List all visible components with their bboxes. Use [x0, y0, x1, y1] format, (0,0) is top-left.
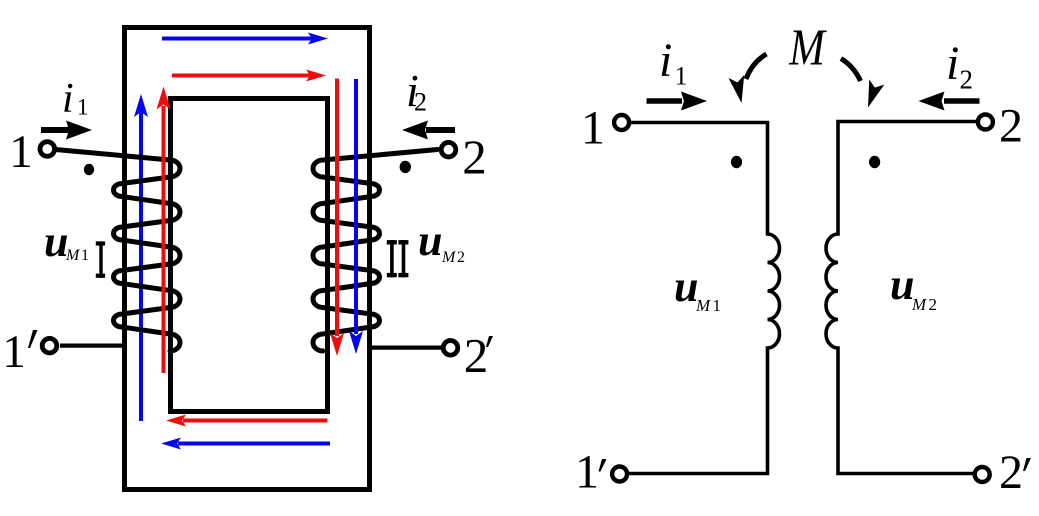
current arrow i2 schematic: [919, 92, 980, 111]
flux arrow red right leg downwards: [330, 79, 344, 357]
svg-text:2: 2: [999, 446, 1023, 499]
svg-text:1: 1: [2, 326, 26, 378]
svg-text:2: 2: [929, 295, 938, 314]
terminal 2: [441, 142, 456, 157]
current arrow i1 schematic: [647, 92, 708, 111]
svg-text:2: 2: [464, 328, 489, 383]
svg-text:1: 1: [81, 247, 89, 264]
svg-text:M: M: [65, 247, 81, 264]
winding numeral I: [96, 241, 105, 277]
winding I coil around left leg: [56, 150, 181, 352]
terminal 2prime: [443, 341, 458, 356]
terminal 1prime: [42, 338, 57, 353]
polarity dot winding I: [84, 164, 94, 175]
transformer core outer outline: [125, 28, 370, 490]
coupled inductor L2 with leads: [826, 122, 977, 474]
svg-text:1: 1: [575, 446, 599, 499]
svg-text:2: 2: [414, 88, 427, 117]
svg-text:u: u: [44, 217, 68, 266]
svg-text:M: M: [695, 296, 711, 315]
polarity dot winding II: [400, 161, 411, 173]
current arrow i2: [402, 121, 455, 140]
svg-text:i: i: [659, 34, 672, 87]
wire 2prime to core: [370, 346, 442, 350]
svg-text:1: 1: [9, 126, 33, 178]
svg-text:i: i: [62, 76, 74, 122]
winding numeral II: [387, 240, 409, 277]
svg-text:u: u: [674, 262, 698, 311]
svg-text:1: 1: [77, 95, 89, 120]
curved arrow right to L2: [841, 59, 884, 111]
current arrow i1: [41, 121, 92, 140]
wire 1prime to core: [60, 344, 124, 348]
svg-text:1: 1: [581, 102, 605, 155]
curved arrow left to L1: [728, 54, 766, 105]
svg-text:u: u: [418, 216, 442, 265]
terminal 2 schematic: [978, 115, 993, 130]
flux arrow blue top rightwards: [162, 33, 328, 45]
terminal 1 schematic: [614, 115, 629, 130]
svg-text:1: 1: [713, 296, 722, 315]
transformer core window inner outline: [171, 99, 328, 412]
flux arrow red left leg upwards: [157, 87, 171, 374]
flux arrow blue right leg downwards: [349, 79, 363, 354]
svg-text:M: M: [441, 249, 457, 266]
flux arrow blue bottom leftwards: [161, 438, 330, 450]
svg-text:i: i: [946, 37, 959, 90]
terminal 1: [40, 142, 55, 157]
svg-text:2: 2: [457, 249, 465, 266]
coupled inductor L1 with leads: [629, 123, 780, 474]
winding II coil around right leg: [313, 150, 438, 352]
terminal 2prime schematic: [975, 467, 990, 482]
svg-text:2: 2: [960, 65, 974, 95]
svg-text:M: M: [911, 295, 927, 314]
terminal 1prime schematic: [612, 467, 627, 482]
polarity dot L2: [869, 156, 880, 168]
svg-text:2: 2: [999, 100, 1023, 153]
polarity dot L1: [731, 156, 742, 168]
flux arrow red top rightwards: [172, 70, 326, 82]
svg-text:M: M: [788, 20, 827, 77]
svg-text:u: u: [890, 260, 914, 309]
svg-text:2: 2: [462, 130, 487, 185]
svg-text:1: 1: [675, 62, 688, 91]
flux arrow blue left leg upwards: [134, 94, 148, 421]
flux arrow red bottom leftwards: [166, 415, 328, 427]
